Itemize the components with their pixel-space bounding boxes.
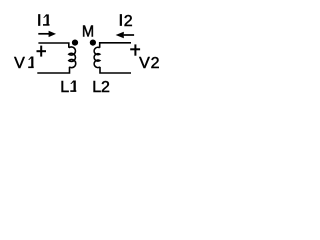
wire top-left port lead <box>38 43 68 48</box>
svg-text:I: I <box>37 13 41 30</box>
polarity dot L1 <box>72 40 78 46</box>
current arrow I2 <box>116 32 135 38</box>
polarity dot L2 <box>90 40 96 46</box>
svg-text:L: L <box>92 79 101 96</box>
plus sign left port <box>37 46 47 57</box>
svg-text:V: V <box>14 55 25 72</box>
svg-text:2: 2 <box>124 13 133 30</box>
inductor L1 <box>69 47 76 68</box>
inductor L2 <box>94 47 100 67</box>
svg-text:I: I <box>119 13 123 30</box>
wire bottom-left port lead <box>37 67 69 73</box>
current arrow I1 <box>38 31 56 37</box>
svg-text:L: L <box>60 79 69 96</box>
plus sign right port <box>130 44 140 55</box>
svg-text:M: M <box>82 23 94 41</box>
svg-text:V: V <box>139 55 150 72</box>
svg-text:2: 2 <box>151 55 160 72</box>
svg-text:2: 2 <box>101 79 110 96</box>
wire top-right port lead <box>100 43 131 48</box>
wire bottom-right port lead <box>100 67 131 73</box>
